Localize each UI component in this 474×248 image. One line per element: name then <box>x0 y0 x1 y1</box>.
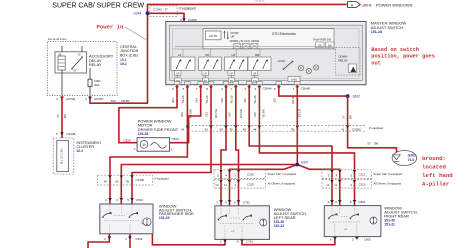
svg-text:C761: C761 <box>243 200 250 204</box>
relay contact switch <box>72 58 82 69</box>
svg-text:151-31: 151-31 <box>384 222 395 226</box>
UP contact box RF <box>202 71 208 76</box>
svg-text:57: 57 <box>368 142 372 146</box>
svg-text:LB-BK: LB-BK <box>121 99 130 103</box>
DN contact box LF <box>175 78 181 83</box>
svg-text:OTD Electronics: OTD Electronics <box>272 32 296 36</box>
UP contact box LR <box>228 71 234 76</box>
svg-text:57: 57 <box>341 115 345 119</box>
master switch pin 4 at x=259.4 <box>257 82 263 85</box>
connector C312 Super Cab dashed box (right rear) <box>322 170 372 179</box>
svg-text:36: 36 <box>115 180 119 184</box>
switch cell RF of master switch <box>199 49 222 83</box>
svg-text:UP: UP <box>231 34 235 38</box>
svg-text:BK: BK <box>348 115 352 119</box>
master switch pin 2 at x=226 <box>223 82 229 85</box>
wire: col I C504A pin4 to splice S602 <box>279 85 348 96</box>
svg-text:C761: C761 <box>246 240 253 244</box>
svg-text:C315: C315 <box>247 173 254 177</box>
svg-text:11: 11 <box>334 183 337 187</box>
svg-text:961: 961 <box>171 98 175 103</box>
svg-text:11: 11 <box>224 183 227 187</box>
svg-text:314: 314 <box>195 98 199 103</box>
svg-text:LOCK: LOCK <box>278 59 286 63</box>
ground G302 ellipse <box>392 151 417 166</box>
wire: S307 left branch to left-rear switch pin4 <box>230 165 298 206</box>
svg-text:RELAY: RELAY <box>339 58 348 62</box>
svg-text:C312: C312 <box>359 182 366 186</box>
switch cell LR of master switch <box>225 49 248 83</box>
connector C2108 dashed box (passenger) <box>98 175 153 185</box>
svg-text:POWER WINDOWS: POWER WINDOWS <box>376 2 413 7</box>
svg-text:962: 962 <box>180 112 184 117</box>
connector C761 pin8 stub <box>240 240 244 243</box>
master switch inner frame <box>169 25 362 80</box>
svg-text:DN: DN <box>204 80 208 83</box>
svg-text:DLY_ACC_RLY: DLY_ACC_RLY <box>61 148 64 164</box>
switch cell LF of master switch <box>171 49 195 83</box>
master switch third frame <box>173 28 359 78</box>
motor M circle <box>140 141 148 149</box>
splice S344 <box>146 11 150 15</box>
DN contact box LR <box>228 78 234 83</box>
svg-text:located: located <box>422 164 446 171</box>
svg-text:316: 316 <box>243 98 247 103</box>
up/down arrows <box>224 32 226 39</box>
svg-text:19-8: 19-8 <box>408 158 415 162</box>
svg-text:57: 57 <box>56 114 60 118</box>
svg-text:43: 43 <box>243 127 247 131</box>
svg-text:C504: C504 <box>136 198 143 202</box>
master switch pin 5 at x=187.4 <box>185 82 191 85</box>
AUTO box <box>206 31 222 40</box>
connector C761 pin2 ground wire to passenger switch <box>152 234 225 245</box>
svg-text:BK: BK <box>375 142 379 146</box>
RSN DN contact boxes <box>316 42 325 48</box>
window adjust switch passenger side box <box>100 204 153 234</box>
wire: col E pin2 to left-rear switch pin3 <box>221 85 226 206</box>
master switch pin 6 at x=177 <box>174 82 180 85</box>
wire: 57 BK from C270E to instrument cluster <box>61 96 63 138</box>
window adjust switch right rear box <box>324 206 381 237</box>
svg-text:59: 59 <box>220 127 224 131</box>
svg-text:ADJUST SWITCH: ADJUST SWITCH <box>371 25 403 30</box>
master switch pin 7 at x=200.7 <box>198 82 204 85</box>
wire: col C pin7 to driver motor right (WH-BK) <box>169 85 201 143</box>
svg-text:C524: C524 <box>124 139 132 143</box>
master switch pin 7 at x=297.3 <box>295 82 301 85</box>
svg-text:if equipped: if equipped <box>369 126 384 130</box>
inline connector C2090 dashed pair <box>188 124 366 126</box>
master switch pin 8 at x=211 <box>208 82 214 85</box>
electronic contact boxes <box>234 44 241 49</box>
master switch pin 1 at x=235.8 <box>233 82 239 85</box>
connector C504 pin2 ground wire down-left <box>88 234 109 248</box>
svg-text:ON: ON <box>318 44 322 47</box>
wire: branch from splice S344 to master switch C2045 <box>148 13 185 21</box>
connector C801 pin6 ground wire to left rear switch <box>242 237 335 245</box>
svg-text:SUPER CAB/ SUPER CREW: SUPER CAB/ SUPER CREW <box>52 3 144 10</box>
DN contact box RF <box>202 78 208 83</box>
power window motor driver side front box <box>137 138 170 152</box>
svg-text:C801: C801 <box>359 200 366 204</box>
svg-text:A-pillar: A-pillar <box>422 181 449 188</box>
svg-text:19-2: 19-2 <box>120 62 127 66</box>
svg-text:S344: S344 <box>134 12 142 16</box>
svg-text:12: 12 <box>326 183 330 187</box>
wire: col B pin5 to passenger switch pin3 <box>110 85 187 204</box>
connector C312 All Others dashed box (right rear) <box>322 180 372 189</box>
svg-text:UP: UP <box>230 73 234 76</box>
svg-text:C504: C504 <box>135 237 142 241</box>
svg-text:C315: C315 <box>247 182 254 186</box>
connector C315 All Others dashed box (left rear) <box>214 180 266 189</box>
wire: 400 LB-BK power riser from CJB up to POWER WINDOWS feed <box>148 4 347 103</box>
svg-text:C524: C524 <box>172 137 180 141</box>
switch cell RR of master switch <box>248 49 271 83</box>
svg-text:38: 38 <box>291 127 295 131</box>
svg-text:out: out <box>371 61 381 67</box>
svg-text:C2045 - 37: C2045 - 37 <box>153 8 168 12</box>
GND box of master switch <box>288 76 300 81</box>
svg-text:C312: C312 <box>359 173 366 177</box>
svg-text:C2108: C2108 <box>136 178 145 182</box>
svg-text:C504B: C504B <box>301 86 310 90</box>
wire inside CJB from relay 87 to fuse <box>61 70 63 96</box>
vertical wire circuit labels <box>171 95 352 119</box>
svg-text:position, power goes: position, power goes <box>371 54 435 60</box>
svg-text:left hand: left hand <box>422 172 453 179</box>
wire: col D pin8 to passenger switch pin5 <box>132 85 211 204</box>
accessory delay relay box <box>55 52 87 73</box>
UP contact box LF <box>175 71 181 76</box>
motor wave symbol <box>151 143 167 149</box>
connector C801 pin2 stub <box>355 237 359 240</box>
wire: col J C504B pin7 down to splice S307 and bus to passenger pin4 <box>296 85 298 165</box>
svg-text:Hot at all times: Hot at all times <box>48 37 67 41</box>
UP contact box RR <box>252 71 258 76</box>
svg-text:DNSW yTe VCC UPSW: DNSW yTe VCC UPSW <box>230 39 260 43</box>
wire: col F pin1 to left-rear switch pin5 <box>236 85 239 206</box>
svg-text:151-28: 151-28 <box>138 132 149 136</box>
DN contact box RR <box>252 78 258 83</box>
svg-text:39: 39 <box>229 127 233 131</box>
svg-text:S602: S602 <box>353 95 361 99</box>
svg-text:40: 40 <box>181 127 185 131</box>
svg-text:if equipped: if equipped <box>180 6 196 10</box>
svg-text:Power in: Power in <box>97 23 124 30</box>
svg-text:BK: BK <box>63 114 67 118</box>
svg-text:Based on switch: Based on switch <box>371 47 419 53</box>
leader line from Power in to power wire <box>125 27 146 40</box>
svg-text:if equipped: if equipped <box>155 176 170 180</box>
svg-text:320: 320 <box>273 98 277 103</box>
svg-text:30A: 30A <box>94 83 99 87</box>
svg-text:YE-BK: YE-BK <box>261 109 265 118</box>
svg-text:YE-LB: YE-LB <box>230 95 234 103</box>
svg-text:WH-YE: WH-YE <box>214 109 218 118</box>
central junction box CJB (dashed) <box>48 42 118 96</box>
svg-text:Ground:: Ground: <box>422 155 446 162</box>
svg-text:48-3: 48-3 <box>76 149 83 153</box>
left rear switch internals <box>218 206 267 240</box>
down relay (dashed) in master switch <box>336 48 361 76</box>
master switch pin 5 at x=278.8 <box>276 82 282 85</box>
svg-text:400: 400 <box>111 99 116 103</box>
off-page arrow A to POWER WINDOWS <box>348 2 361 8</box>
svg-text:12: 12 <box>215 183 219 187</box>
svg-text:DN: DN <box>328 44 332 47</box>
electronics module box <box>203 29 334 49</box>
svg-text:UP: UP <box>204 73 208 76</box>
connector C504 pin4 ground wire down <box>129 234 131 248</box>
svg-text:BOX (CJB): BOX (CJB) <box>120 53 138 57</box>
svg-text:100-8: 100-8 <box>362 3 371 7</box>
wire: col A pin6 to driver motor left (TN-LB) <box>119 85 177 143</box>
svg-text:C504A: C504A <box>263 86 272 90</box>
svg-text:LF: LF <box>178 53 182 57</box>
svg-text:ACC: ACC <box>141 219 144 224</box>
illumination lamps <box>298 65 303 70</box>
svg-text:C2090: C2090 <box>352 127 361 131</box>
splice S602 <box>346 94 350 98</box>
fuse F401 30A <box>88 79 92 86</box>
svg-text:44: 44 <box>253 127 257 131</box>
svg-text:151-28: 151-28 <box>371 30 382 34</box>
svg-text:AUTO: AUTO <box>209 34 218 38</box>
svg-text:RELAY: RELAY <box>89 62 102 67</box>
svg-text:315: 315 <box>253 112 257 117</box>
svg-text:Super Cab; if equipped: Super Cab; if equipped <box>374 172 403 176</box>
svg-text:TN-LB: TN-LB <box>181 95 185 103</box>
svg-text:39: 39 <box>126 180 130 184</box>
svg-text:40: 40 <box>104 180 108 184</box>
ground symbol arrow <box>393 155 400 160</box>
wire: fuse output C270N to riser <box>90 96 148 103</box>
instrument cluster box (dashed) <box>53 138 74 174</box>
svg-text:151-31: 151-31 <box>274 224 285 228</box>
passenger switch internals <box>102 204 151 234</box>
svg-text:S307: S307 <box>301 160 309 164</box>
svg-text:41: 41 <box>341 127 345 131</box>
svg-text:RF: RF <box>206 53 210 57</box>
svg-text:All Others; if equipped: All Others; if equipped <box>374 182 402 186</box>
master window adjust switch outer box <box>166 22 366 85</box>
svg-text:313: 313 <box>204 112 208 117</box>
instrument cluster inner module <box>57 141 69 172</box>
svg-text:TN-LB: TN-LB <box>205 95 209 103</box>
relay coil <box>58 56 65 70</box>
svg-text:C2208: C2208 <box>67 132 76 136</box>
svg-text:C801: C801 <box>364 238 371 242</box>
connector C315 Super Cab dashed box (left rear) <box>214 170 266 179</box>
svg-text:GND: GND <box>291 78 297 82</box>
svg-text:C270E: C270E <box>66 97 75 101</box>
window adjust switch left rear box <box>215 206 270 240</box>
svg-text:C270N: C270N <box>94 97 103 101</box>
right rear switch internals <box>328 206 377 237</box>
wire: S307 right branch to right-rear switch pin4 <box>297 165 340 206</box>
svg-text:UP: UP <box>253 73 257 76</box>
relay feed stubs <box>61 46 63 52</box>
svg-text:36: 36 <box>205 127 209 131</box>
svg-text:Super Cab; if equipped: Super Cab; if equipped <box>268 172 297 176</box>
svg-text:PoW RSN DN: PoW RSN DN <box>314 38 332 42</box>
svg-text:318: 318 <box>220 98 224 103</box>
svg-text:151-29: 151-29 <box>159 216 170 220</box>
svg-text:UP: UP <box>176 73 180 76</box>
svg-text:317: 317 <box>228 112 232 117</box>
wire: col G pin3 to right-rear switch pin3 <box>249 85 332 206</box>
wire: col H pin1 to right-rear switch pin5 <box>259 85 354 206</box>
splice S307 <box>295 163 299 167</box>
svg-text:YE-LB: YE-LB <box>253 95 257 103</box>
master switch pin 3 at x=249.2 <box>246 82 252 85</box>
svg-text:M: M <box>143 143 146 147</box>
connector C2045-37 inline (dashed box) <box>150 6 177 17</box>
svg-text:GY-OG: GY-OG <box>239 109 243 118</box>
svg-text:134 55 41: 134 55 41 <box>254 0 265 3</box>
internal bus lines electronics to switch cells <box>175 46 332 48</box>
svg-text:All Others; if equipped: All Others; if equipped <box>268 182 296 186</box>
wire: 57 BK ground wire from S602 to G302 <box>348 96 397 154</box>
